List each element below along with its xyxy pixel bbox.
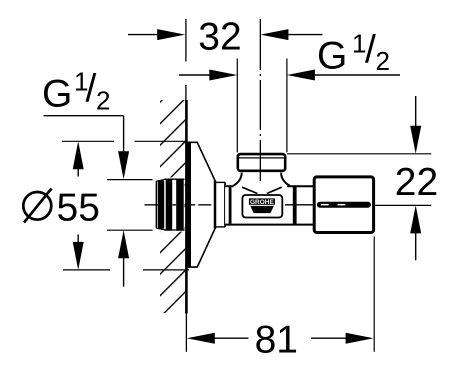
svg-text:32: 32 [198, 16, 241, 59]
svg-text:22: 22 [395, 161, 438, 204]
svg-text:55: 55 [57, 187, 100, 230]
dimension 81 (wall face to handle end) [187, 237, 374, 362]
handle knob [314, 177, 373, 233]
svg-text:81: 81 [255, 318, 298, 361]
svg-text:GROHE: GROHE [250, 199, 274, 206]
svg-text:2: 2 [376, 46, 390, 76]
inlet pipe thread G1/2 (behind wall) [153, 177, 185, 231]
vertical centerline of top outlet (dash-dot) [259, 19, 261, 181]
svg-text:G: G [317, 35, 347, 78]
svg-text:2: 2 [96, 86, 110, 116]
svg-text:/: / [365, 29, 376, 72]
horizontal centerline of valve axis (dash-dot) [145, 204, 313, 206]
wall escutcheon flange (conical rosette) [188, 142, 225, 267]
dimension 32 (wall face to outlet axis) [128, 16, 323, 101]
GROHE logo plate [242, 195, 282, 218]
wall face line [185, 100, 188, 352]
dimension G 1/2 (wall pipe thread) with bent leader [42, 67, 153, 287]
top outlet neck bell [233, 173, 290, 186]
svg-text:/: / [86, 68, 97, 111]
svg-text:G: G [42, 73, 72, 116]
dimension 22 (cap top to valve axis) [287, 96, 438, 260]
dimension diameter 55 (flange) [23, 141, 189, 270]
wall section hatching [160, 100, 185, 313]
valve body [225, 185, 314, 225]
top outlet cap nut G1/2 [236, 153, 286, 173]
dimension G 1/2 (top outlet thread) [179, 29, 400, 153]
